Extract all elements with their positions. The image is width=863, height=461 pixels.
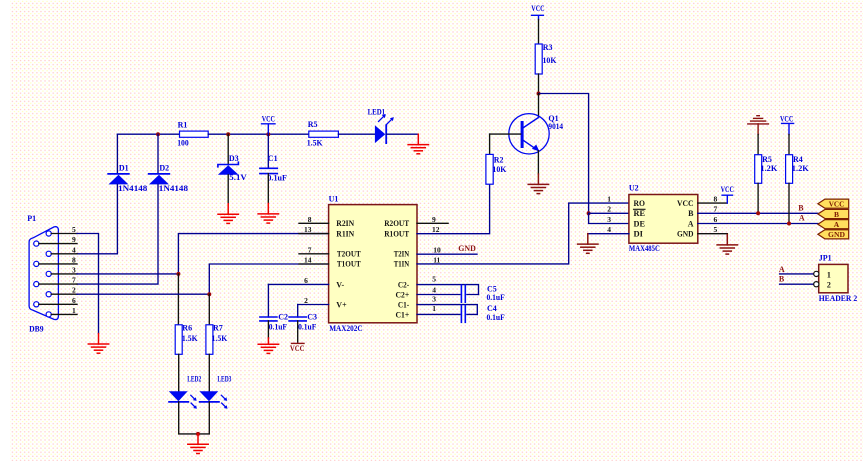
- U1 pin 7 T2OUT: [299, 245, 361, 258]
- svg-text:GND: GND: [458, 244, 476, 253]
- svg-text:C2: C2: [278, 313, 288, 322]
- node R3 collector: [537, 92, 541, 96]
- power VCC above R4: [780, 114, 794, 134]
- svg-text:B: B: [688, 209, 694, 218]
- LED LED2: [169, 375, 201, 409]
- JP1 pin 1 wire: [780, 271, 819, 276]
- U2 pin 5 GND: [677, 225, 727, 239]
- svg-text:LED2: LED2: [187, 375, 201, 384]
- port B: [818, 209, 849, 218]
- U2 pin 8 VCC: [677, 194, 727, 208]
- capacitor C4: [461, 304, 504, 322]
- resistor R5: [307, 120, 339, 147]
- svg-text:LED1: LED1: [368, 108, 386, 117]
- svg-text:C5: C5: [487, 284, 497, 293]
- svg-text:C2+: C2+: [396, 290, 410, 299]
- svg-text:0.1uF: 0.1uF: [269, 322, 287, 331]
- svg-text:7: 7: [714, 205, 718, 214]
- svg-text:4: 4: [607, 225, 611, 234]
- U1 pin 5 C2- wire: [398, 274, 479, 294]
- svg-text:T2IN: T2IN: [394, 250, 410, 259]
- svg-text:R3: R3: [543, 43, 553, 52]
- resistor R2: [486, 154, 507, 184]
- op IC U2 MAX485C body: [629, 184, 698, 253]
- capacitor C2: [260, 284, 288, 338]
- U1 pin 14 T1OUT: [299, 256, 361, 269]
- node rail-D2: [156, 132, 160, 136]
- U1 pin 2 V+: [298, 296, 347, 309]
- U1 pin 4 C2+ wire: [396, 285, 479, 299]
- wire rail to LED1: [338, 133, 375, 135]
- diode D2 1N4148: [149, 164, 188, 194]
- svg-text:0.1uF: 0.1uF: [298, 322, 316, 331]
- P1 pin 9: [34, 235, 77, 246]
- ground under DB9 pin5 wire: [88, 334, 108, 354]
- svg-text:1: 1: [432, 304, 436, 313]
- ground under D3: [218, 204, 238, 224]
- power VCC under C3: [290, 343, 305, 352]
- wire D3 to ground: [227, 175, 229, 204]
- svg-text:C2-: C2-: [398, 280, 410, 289]
- svg-text:HEADER 2: HEADER 2: [819, 294, 858, 303]
- svg-text:4: 4: [72, 245, 76, 254]
- wire top rail left segment: [117, 133, 179, 135]
- svg-text:VCC: VCC: [531, 4, 544, 13]
- resistor R5 1.2K: [755, 155, 779, 184]
- svg-text:1: 1: [607, 194, 611, 203]
- P1 pin 5: [46, 225, 77, 236]
- svg-text:C1-: C1-: [398, 300, 410, 309]
- svg-text:5: 5: [432, 274, 436, 283]
- svg-text:T1IN: T1IN: [394, 260, 410, 269]
- node R4 A: [787, 222, 791, 226]
- capacitor C5: [461, 284, 504, 302]
- inverted ground above R5b: [748, 116, 769, 135]
- svg-text:R5: R5: [762, 155, 772, 164]
- wire R6 to LED2: [178, 354, 180, 391]
- svg-text:13: 13: [304, 225, 312, 234]
- svg-text:VCC: VCC: [677, 199, 694, 208]
- P1 pin 8: [34, 255, 77, 266]
- svg-text:U1: U1: [329, 194, 339, 203]
- svg-text:1.2K: 1.2K: [792, 164, 810, 173]
- node DB9 pin2 / R7: [207, 292, 211, 296]
- svg-text:1: 1: [827, 270, 831, 279]
- svg-text:12: 12: [432, 225, 440, 234]
- svg-text:9: 9: [72, 235, 76, 244]
- svg-text:DB9: DB9: [29, 325, 43, 334]
- svg-text:D1: D1: [119, 164, 129, 173]
- P1 pin 2: [46, 286, 77, 297]
- node rail-VCC-C1: [266, 132, 270, 136]
- LED LED1: [368, 108, 394, 144]
- svg-text:C4: C4: [487, 304, 497, 313]
- P1 pin 6: [34, 296, 77, 307]
- U1 pin 11 T1IN wire to U2 RO: [394, 203, 629, 269]
- svg-text:R7: R7: [213, 323, 223, 332]
- svg-text:B: B: [834, 210, 839, 219]
- zener D3 5.1V: [218, 154, 247, 182]
- wire rail mid segment: [208, 133, 309, 135]
- svg-text:8: 8: [308, 215, 312, 224]
- U2 pin 6 A wire: [688, 215, 818, 229]
- JP1 pin 2 wire: [780, 282, 819, 287]
- svg-text:DI: DI: [634, 230, 644, 239]
- svg-text:100: 100: [177, 139, 189, 148]
- wire DB9 pin3 to U1 R1IN: [77, 234, 329, 274]
- svg-text:B: B: [779, 274, 785, 283]
- transistor Q1 9014: [509, 114, 563, 154]
- svg-text:10: 10: [433, 245, 441, 254]
- wire DB9 pin5 to ground: [77, 234, 99, 334]
- wire VCC to R3: [538, 20, 540, 45]
- svg-text:A: A: [779, 265, 785, 274]
- U1 pin 13 R1IN: [299, 225, 354, 238]
- resistor R4 1.2K: [786, 155, 810, 184]
- U1 pin 12 R1OUT wire to R2: [384, 184, 489, 238]
- svg-text:VCC: VCC: [262, 114, 275, 123]
- svg-text:GND: GND: [677, 230, 694, 239]
- U2 pin 2 RE: [607, 205, 645, 219]
- svg-text:JP1: JP1: [819, 254, 832, 263]
- svg-text:1N4148: 1N4148: [159, 184, 188, 193]
- svg-text:D3: D3: [229, 154, 239, 163]
- svg-text:14: 14: [304, 256, 312, 265]
- wire node down to R7: [208, 294, 210, 325]
- LED LED3: [199, 375, 231, 409]
- wire node down to Q1 collector: [538, 94, 540, 118]
- svg-text:3: 3: [72, 265, 76, 274]
- svg-text:V+: V+: [336, 300, 347, 309]
- ground under Q1: [528, 174, 548, 194]
- svg-text:GND: GND: [828, 230, 846, 239]
- U2 pin 1 RO: [607, 194, 645, 208]
- svg-text:U2: U2: [629, 184, 639, 193]
- svg-text:T2OUT: T2OUT: [337, 250, 361, 259]
- svg-text:1.5K: 1.5K: [182, 334, 199, 343]
- svg-text:R1IN: R1IN: [336, 230, 354, 239]
- svg-text:2: 2: [72, 286, 76, 295]
- svg-text:P1: P1: [27, 214, 36, 223]
- svg-text:1: 1: [72, 306, 76, 315]
- svg-text:5: 5: [72, 225, 76, 234]
- svg-text:R1: R1: [178, 120, 188, 129]
- U2 pin 7 B wire: [688, 205, 818, 219]
- svg-text:R6: R6: [182, 323, 192, 332]
- node R5 B: [756, 211, 760, 215]
- svg-text:2: 2: [304, 296, 308, 305]
- svg-text:9014: 9014: [548, 122, 563, 131]
- svg-text:RE: RE: [634, 209, 646, 218]
- ground under LED2 LED3: [188, 434, 208, 454]
- svg-text:10K: 10K: [492, 165, 507, 174]
- svg-text:R4: R4: [793, 155, 803, 164]
- svg-text:D2: D2: [159, 164, 169, 173]
- svg-text:1.5K: 1.5K: [307, 139, 324, 148]
- svg-text:6: 6: [714, 215, 718, 224]
- ground right of LED1: [408, 134, 428, 154]
- svg-text:VCC: VCC: [721, 185, 734, 194]
- svg-text:R1OUT: R1OUT: [384, 230, 410, 239]
- svg-text:11: 11: [433, 255, 440, 264]
- U2 pin 4 DI: [588, 225, 643, 239]
- svg-text:0.1uF: 0.1uF: [487, 293, 505, 302]
- ground under C2: [258, 338, 278, 353]
- svg-text:C1: C1: [268, 154, 278, 163]
- wire base to R2: [490, 133, 521, 135]
- power VCC top-left: [262, 114, 276, 134]
- U1 pin 10 T2IN with GND net label: [394, 245, 477, 258]
- U1 pin 9 R2OUT: [384, 215, 448, 228]
- wire R7 to LED3: [208, 354, 210, 391]
- ground under C1: [258, 204, 278, 224]
- svg-text:9: 9: [432, 215, 436, 224]
- ground under U2 pin5: [717, 235, 737, 255]
- U2 pin 3 DE: [607, 215, 645, 229]
- svg-text:1.5K: 1.5K: [212, 334, 229, 343]
- U1 pin 6 V-: [268, 276, 344, 289]
- svg-text:RO: RO: [634, 199, 646, 208]
- wire to R5b: [757, 135, 759, 155]
- resistor R3: [535, 43, 557, 74]
- svg-text:A: A: [834, 220, 840, 229]
- svg-text:0.1uF: 0.1uF: [267, 173, 287, 182]
- ground under U2 DI: [578, 234, 598, 254]
- svg-text:MAX202C: MAX202C: [329, 324, 363, 333]
- P1 pin 7: [34, 276, 77, 287]
- power VCC at U2 pin8: [721, 185, 734, 203]
- svg-text:2: 2: [607, 205, 611, 214]
- wire VCC to R4: [788, 135, 790, 155]
- svg-text:A: A: [799, 214, 805, 223]
- wire node down to U2 pin3: [589, 213, 629, 223]
- wire DB9 pin2 to U1 T1OUT: [77, 264, 329, 294]
- svg-text:3: 3: [432, 294, 436, 303]
- wire LED1 to ground: [386, 133, 418, 135]
- op IC U1 MAX202C body: [329, 194, 417, 332]
- svg-text:5.1V: 5.1V: [229, 173, 247, 182]
- wire D1 to DB9 pin4: [77, 184, 117, 253]
- svg-text:0.1uF: 0.1uF: [487, 313, 505, 322]
- wire U2 pin5 down: [726, 233, 728, 236]
- wire rail down to D2: [157, 134, 159, 173]
- P1 pin 4: [46, 245, 77, 256]
- svg-text:1.2K: 1.2K: [760, 164, 778, 173]
- svg-text:R2OUT: R2OUT: [384, 219, 410, 228]
- resistor R6: [175, 323, 198, 354]
- svg-text:5: 5: [714, 225, 718, 234]
- svg-text:MAX485C: MAX485C: [629, 244, 660, 253]
- U1 pin 8 R2IN: [299, 215, 354, 228]
- svg-text:DE: DE: [634, 219, 646, 228]
- svg-text:2: 2: [827, 281, 831, 290]
- svg-text:8: 8: [72, 255, 76, 264]
- connector P1 DB9: [27, 214, 58, 334]
- svg-text:6: 6: [72, 296, 76, 305]
- svg-text:7: 7: [308, 245, 312, 254]
- svg-text:VCC: VCC: [780, 114, 793, 123]
- svg-text:10K: 10K: [543, 56, 558, 65]
- node rail-D3: [226, 132, 230, 136]
- wire rail down to D1: [116, 134, 118, 173]
- wire node to U2 RE DE: [539, 94, 589, 214]
- svg-text:8: 8: [714, 194, 718, 203]
- wire node down to R6: [177, 274, 179, 325]
- node DB9 pin3 / R6: [176, 272, 180, 276]
- port A: [818, 220, 849, 229]
- wire C1 to ground: [267, 174, 269, 204]
- U1 pin 1 C1+ wire: [396, 304, 478, 320]
- svg-text:LED3: LED3: [217, 375, 231, 384]
- capacitor C1: [260, 134, 287, 182]
- port GND: [818, 230, 849, 239]
- svg-text:3: 3: [607, 215, 611, 224]
- svg-text:R5: R5: [308, 120, 318, 129]
- P1 pin 3: [46, 265, 77, 276]
- resistor R1: [177, 120, 208, 147]
- svg-text:A: A: [688, 219, 694, 228]
- svg-text:T1OUT: T1OUT: [337, 260, 361, 269]
- wire node to U2 pin2: [589, 212, 629, 214]
- power VCC above R3: [531, 4, 544, 19]
- wire Q1 emitter to ground: [537, 151, 539, 174]
- wire R4 to A net: [788, 183, 790, 223]
- wire rail down to D3: [227, 134, 229, 164]
- svg-text:R2IN: R2IN: [336, 219, 354, 228]
- wire R5b to B net: [757, 183, 759, 213]
- diode D1 1N4148: [108, 164, 147, 194]
- wire LED2 LED3 to ground: [179, 402, 210, 434]
- svg-text:4: 4: [432, 285, 436, 294]
- svg-text:C3: C3: [307, 313, 317, 322]
- capacitor C3: [289, 305, 317, 343]
- connector JP1 HEADER 2: [819, 254, 858, 303]
- wire R3 to collector node: [538, 74, 540, 94]
- svg-text:V-: V-: [336, 280, 344, 289]
- port VCC: [818, 199, 849, 208]
- node LED ground: [196, 432, 200, 436]
- svg-text:6: 6: [304, 276, 308, 285]
- wire D2 to DB9 pin7: [77, 184, 158, 284]
- U1 pin 3 C1- wire: [398, 294, 477, 314]
- svg-text:VCC: VCC: [829, 200, 845, 209]
- svg-text:1N4148: 1N4148: [118, 184, 147, 193]
- resistor R7: [206, 323, 228, 354]
- svg-text:C1+: C1+: [396, 310, 410, 319]
- svg-text:7: 7: [72, 276, 76, 285]
- svg-text:R2: R2: [494, 155, 504, 164]
- svg-text:B: B: [798, 204, 804, 213]
- P1 pin 1: [46, 306, 77, 317]
- svg-text:VCC: VCC: [290, 344, 305, 353]
- node RE branch: [587, 211, 591, 215]
